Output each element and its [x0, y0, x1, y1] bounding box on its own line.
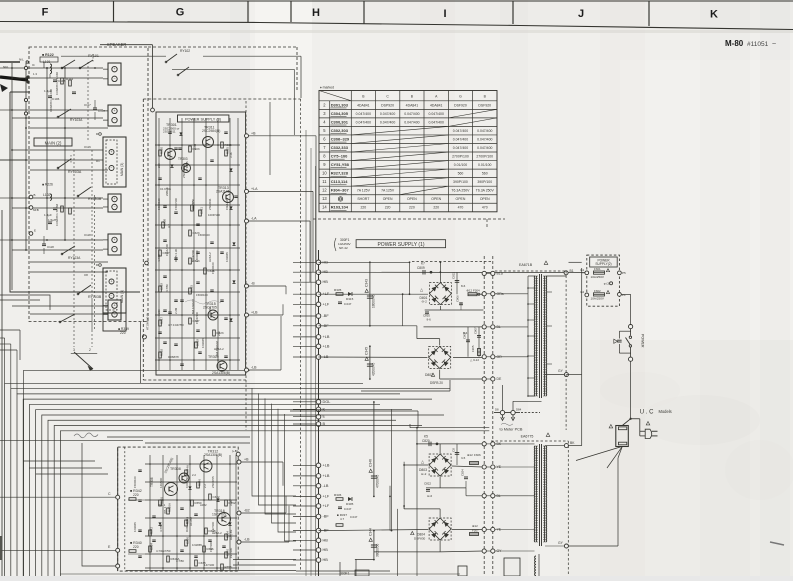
svg-text:HB: HB	[323, 538, 329, 542]
svg-text:C806: C806	[456, 295, 460, 302]
svg-text:1500/100: 1500/100	[211, 262, 215, 274]
svg-text:D315: D315	[346, 297, 354, 301]
svg-text:HB: HB	[323, 558, 329, 562]
svg-text:0.01/100: 0.01/100	[454, 163, 468, 167]
svg-text:-LA: -LA	[251, 217, 257, 221]
svg-text:U . C: U . C	[640, 410, 654, 416]
svg-text:C807: C807	[474, 327, 478, 334]
svg-text:-LB: -LB	[244, 538, 250, 542]
svg-text:1.3: 1.3	[33, 72, 37, 76]
svg-text:220: 220	[217, 331, 221, 336]
svg-text:D8: D8	[495, 408, 499, 412]
svg-text:DSF830: DSF830	[414, 537, 426, 541]
svg-text:R358: R358	[225, 565, 232, 569]
svg-text:GY: GY	[558, 541, 564, 545]
svg-text:2.2: 2.2	[192, 473, 196, 477]
svg-text:470: 470	[458, 206, 464, 210]
svg-text:■ R226: ■ R226	[42, 183, 53, 187]
svg-text:F302: F302	[594, 289, 601, 293]
svg-text:C322: C322	[213, 495, 220, 499]
svg-text:1500/100: 1500/100	[133, 476, 137, 488]
svg-text:MAIN (3): MAIN (3)	[120, 163, 124, 176]
svg-text:11: 11	[322, 179, 327, 184]
svg-text:HB: HB	[323, 280, 329, 284]
svg-text:2700P/100: 2700P/100	[476, 155, 493, 159]
svg-text:SUPPLY(2): SUPPLY(2)	[595, 262, 611, 266]
svg-text:F306: F306	[474, 453, 481, 457]
svg-text:C306~329: C306~329	[331, 136, 350, 141]
svg-text:0.047/400: 0.047/400	[404, 112, 419, 116]
svg-text:0.068/7F1.70.068: 0.068/7F1.70.068	[55, 204, 59, 226]
svg-text:10: 10	[322, 171, 327, 176]
svg-text:C346: C346	[369, 459, 373, 467]
svg-text:C106: C106	[52, 97, 60, 101]
svg-text:-B2: -B2	[244, 509, 250, 513]
svg-text:EA671B: EA671B	[519, 263, 533, 267]
svg-text:0.047/400: 0.047/400	[429, 120, 444, 124]
svg-text:1.3μF: 1.3μF	[44, 213, 52, 217]
svg-text:C8: C8	[452, 448, 456, 452]
svg-text:10A/250V: 10A/250V	[591, 275, 605, 279]
svg-text:B: B	[34, 193, 36, 197]
svg-text:■ R122: ■ R122	[42, 53, 54, 57]
svg-text:CY51,Y58: CY51,Y58	[331, 162, 350, 167]
svg-text:SHORT: SHORT	[357, 197, 370, 201]
svg-text:C118: C118	[84, 233, 91, 237]
svg-text:DSF920: DSF920	[454, 103, 467, 107]
svg-text:T6.3A 250V: T6.3A 250V	[476, 189, 495, 193]
svg-text:Models: Models	[659, 409, 672, 414]
svg-text:⊖-6: ⊖-6	[427, 494, 432, 498]
svg-text:F301: F301	[594, 267, 601, 271]
svg-text:RY102: RY102	[180, 49, 190, 53]
svg-text:(+B): (+B)	[232, 449, 238, 453]
svg-text:R103,104: R103,104	[331, 205, 349, 210]
svg-text:G: G	[459, 95, 462, 99]
svg-text:DSFB 20: DSFB 20	[430, 381, 443, 385]
svg-text:10A/250V: 10A/250V	[591, 297, 605, 301]
svg-text:R327,328: R327,328	[331, 171, 349, 176]
svg-text:DE: DE	[497, 377, 502, 381]
svg-text:0.01/100: 0.01/100	[478, 163, 492, 167]
svg-text:R344A: R344A	[186, 465, 190, 474]
svg-text:C6k1/100: C6k1/100	[165, 244, 169, 256]
svg-text:R326A: R326A	[168, 503, 172, 512]
svg-text:197/100: 197/100	[229, 547, 233, 558]
svg-text:C809: C809	[417, 266, 425, 270]
svg-text:0.047/50: 0.047/50	[191, 199, 195, 210]
svg-text:C118: C118	[47, 245, 54, 249]
svg-text:3PL.1: 3PL.1	[158, 503, 166, 507]
svg-text:D319: D319	[196, 339, 200, 346]
svg-text:2SC2911: 2SC2911	[208, 198, 212, 210]
svg-text:R335: R335	[334, 288, 342, 292]
svg-text:BK: BK	[570, 441, 575, 445]
svg-text:+: +	[113, 238, 115, 242]
svg-text:+LB: +LB	[323, 335, 330, 339]
svg-text:0.068: 0.068	[208, 307, 212, 314]
svg-text:-BF: -BF	[323, 314, 330, 318]
svg-text:+: +	[113, 109, 115, 113]
svg-text:F307: F307	[472, 529, 479, 533]
svg-text:220: 220	[133, 545, 139, 549]
svg-text:C300,301: C300,301	[331, 119, 349, 124]
svg-text:3-5: 3-5	[461, 456, 466, 460]
svg-text:470: 470	[482, 206, 488, 210]
svg-text:+LB: +LB	[323, 463, 330, 467]
svg-text:C117: C117	[84, 103, 91, 107]
svg-text:RY103A: RY103A	[68, 256, 81, 260]
svg-text:D305: D305	[346, 502, 354, 506]
svg-text:GY: GY	[558, 369, 564, 373]
svg-text:4.7 0.047/50: 4.7 0.047/50	[168, 323, 184, 327]
svg-text:C113,114: C113,114	[331, 179, 349, 184]
svg-text:4DA841: 4DA841	[430, 103, 443, 107]
svg-text:150P/100: 150P/100	[174, 198, 178, 210]
svg-text:9-6: 9-6	[427, 318, 432, 322]
svg-text:197/100: 197/100	[211, 521, 215, 532]
svg-text:MA 12A0-M: MA 12A0-M	[215, 341, 219, 356]
svg-text:K7: K7	[421, 262, 425, 266]
svg-text:2: 2	[89, 348, 91, 352]
svg-text:TR308: TR308	[170, 467, 181, 471]
svg-text:0.068/7F1.2 0.068: 0.068/7F1.2 0.068	[55, 72, 59, 95]
svg-text:0.068/7F1.2 0.068: 0.068/7F1.2 0.068	[49, 89, 53, 112]
svg-text:8-6: 8-6	[461, 284, 466, 288]
svg-text:R326 3PL.1: R326 3PL.1	[185, 517, 189, 532]
svg-text:+LB: +LB	[323, 474, 330, 478]
svg-text:RY103A: RY103A	[68, 170, 82, 174]
svg-text:C321: C321	[200, 207, 204, 214]
svg-text:D301,303: D301,303	[331, 102, 349, 107]
svg-text:1N1865: 1N1865	[192, 543, 202, 547]
svg-text:M-80: M-80	[725, 39, 744, 48]
svg-text:0.047/400: 0.047/400	[380, 120, 395, 124]
svg-text:−: −	[113, 118, 115, 122]
svg-text:E2: E2	[581, 290, 585, 294]
svg-text:T6.3A 250V: T6.3A 250V	[451, 189, 470, 193]
svg-text:C319: C319	[160, 283, 164, 290]
svg-text:C345: C345	[365, 347, 369, 355]
svg-text:0.047/400: 0.047/400	[356, 120, 371, 124]
svg-text:-B: -B	[251, 282, 255, 286]
svg-text:TR303: TR303	[178, 157, 188, 161]
svg-text:2.2M: 2.2M	[193, 143, 197, 150]
svg-text:0.047/400: 0.047/400	[429, 112, 444, 116]
svg-text:OPEN: OPEN	[431, 197, 441, 201]
svg-text:POWER SUPPLY (3): POWER SUPPLY (3)	[185, 118, 222, 122]
svg-text:-LB: -LB	[251, 366, 257, 370]
svg-text:42000/45: 42000/45	[371, 362, 375, 376]
svg-text:~: ~	[772, 41, 776, 48]
svg-text:J: J	[578, 8, 584, 20]
svg-text:HB: HB	[323, 548, 329, 552]
svg-text:560: 560	[458, 172, 464, 176]
svg-text:4.7/50: 4.7/50	[159, 524, 163, 532]
svg-text:2SA1306(B): 2SA1306(B)	[212, 371, 230, 375]
svg-text:0.047/400: 0.047/400	[477, 137, 492, 141]
svg-text:C304,305: C304,305	[331, 111, 349, 116]
svg-text:NFL: NFL	[3, 65, 9, 69]
svg-text:2SC2901: 2SC2901	[182, 166, 186, 178]
svg-text:OPEN: OPEN	[407, 197, 417, 201]
svg-text:4.7/50: 4.7/50	[165, 284, 169, 292]
svg-text:K: K	[710, 9, 718, 21]
svg-text:MA 12A0-M: MA 12A0-M	[191, 299, 195, 314]
svg-text:7A 125V: 7A 125V	[381, 189, 395, 193]
svg-text:2.2: 2.2	[203, 484, 207, 488]
svg-text:0.047/400: 0.047/400	[453, 137, 468, 141]
svg-text:R315: R315	[190, 285, 194, 292]
svg-text:197/100: 197/100	[209, 541, 213, 552]
svg-text:4.7: 4.7	[167, 224, 171, 228]
svg-text:7A 125V: 7A 125V	[357, 189, 371, 193]
svg-text:4DA841: 4DA841	[406, 103, 419, 107]
svg-text:C344: C344	[369, 528, 373, 536]
svg-text:14: 14	[322, 205, 327, 210]
svg-text:150P/100: 150P/100	[195, 312, 199, 324]
svg-text:A32(-B3: A32(-B3	[229, 529, 233, 540]
svg-text:IC: IC	[32, 63, 35, 67]
svg-text:C6k1/100: C6k1/100	[225, 198, 229, 210]
svg-text:147/100: 147/100	[204, 563, 215, 567]
svg-text:C336: C336	[186, 537, 190, 544]
svg-text:△ 9-12: △ 9-12	[470, 358, 479, 362]
svg-text:K5: K5	[424, 435, 428, 439]
svg-text:H: H	[312, 7, 320, 19]
svg-text:−: −	[113, 77, 115, 81]
svg-text:560: 560	[482, 172, 488, 176]
svg-text:120/500: 120/500	[159, 477, 163, 488]
svg-text:0.047/400: 0.047/400	[356, 112, 371, 116]
svg-text:220: 220	[433, 206, 439, 210]
svg-text:2.2M: 2.2M	[174, 307, 178, 314]
svg-text:to Meter PCB: to Meter PCB	[500, 428, 523, 432]
svg-text:3: 3	[73, 348, 75, 352]
svg-text:C820: C820	[422, 439, 430, 443]
svg-text:D84: D84	[516, 408, 522, 412]
svg-text:+: +	[113, 67, 115, 71]
svg-text:B1a: B1a	[497, 271, 503, 275]
svg-text:C824: C824	[461, 469, 465, 476]
svg-text:+LB: +LB	[251, 311, 258, 315]
svg-text:⊕12: ⊕12	[467, 453, 473, 457]
svg-text:NFB: NFB	[33, 208, 39, 212]
svg-text:L101: L101	[43, 60, 51, 64]
svg-text:100P/100: 100P/100	[208, 213, 220, 217]
svg-text:OPEN: OPEN	[480, 197, 490, 201]
svg-text:C107: C107	[98, 109, 105, 113]
svg-text:C343: C343	[365, 279, 369, 287]
svg-text:+: +	[113, 197, 115, 201]
svg-text:D1: D1	[96, 159, 100, 163]
svg-text:0.047: 0.047	[350, 515, 358, 519]
svg-text:2700P/100: 2700P/100	[452, 155, 469, 159]
svg-text:+: +	[113, 304, 115, 308]
svg-text:+: +	[111, 280, 113, 284]
svg-text:220: 220	[120, 331, 126, 335]
svg-text:2SC2984(B): 2SC2984(B)	[202, 129, 220, 133]
svg-text:F305: F305	[471, 345, 475, 352]
svg-text:0.047: 0.047	[344, 507, 352, 511]
svg-text:47000/45: 47000/45	[375, 474, 379, 488]
svg-text:♦ marked: ♦ marked	[320, 86, 334, 90]
svg-text:+LF: +LF	[323, 494, 330, 498]
svg-text:DGL: DGL	[323, 400, 331, 404]
svg-text:R317: R317	[160, 317, 164, 324]
svg-text:C302,303: C302,303	[331, 128, 349, 133]
svg-text:+: +	[111, 150, 113, 154]
svg-text:0.047/400: 0.047/400	[380, 112, 395, 116]
svg-text:3PL.1: 3PL.1	[163, 506, 167, 514]
svg-text:OPEN: OPEN	[383, 197, 393, 201]
svg-text:F: F	[42, 7, 49, 19]
svg-text:φ (3): φ (3)	[604, 282, 610, 286]
svg-text:HZ6A-2: HZ6A-2	[208, 252, 212, 262]
svg-text:2MA-X: 2MA-X	[165, 187, 169, 196]
svg-text:RY103B: RY103B	[88, 295, 102, 299]
svg-text:100P/100: 100P/100	[191, 250, 195, 262]
svg-text:0.047/400: 0.047/400	[453, 129, 468, 133]
svg-text:0.047/400: 0.047/400	[477, 146, 492, 150]
svg-text:F304~307: F304~307	[331, 188, 350, 193]
svg-text:DSP920: DSP920	[381, 103, 394, 107]
svg-text:0.047/400: 0.047/400	[453, 146, 468, 150]
svg-text:POWER SUPPLY (1): POWER SUPPLY (1)	[377, 242, 424, 248]
svg-text:R305 3.3K: R305 3.3K	[174, 249, 178, 262]
svg-text:E1: E1	[581, 268, 585, 272]
svg-text:I: I	[443, 8, 446, 20]
svg-text:DSF920: DSF920	[478, 103, 491, 107]
svg-text:+LA: +LA	[251, 187, 258, 191]
svg-text:+LF: +LF	[323, 302, 330, 306]
svg-text:⊖-2: ⊖-2	[422, 300, 428, 304]
svg-text:8-4: 8-4	[463, 331, 468, 335]
svg-text:-LB: -LB	[323, 484, 329, 488]
svg-text:R318: R318	[160, 349, 164, 356]
svg-text:C105: C105	[58, 79, 66, 83]
svg-text:0.047/400: 0.047/400	[404, 120, 419, 124]
svg-text:390P/100: 390P/100	[453, 180, 468, 184]
svg-text:P1: P1	[622, 293, 626, 297]
svg-text:12: 12	[322, 188, 327, 193]
svg-text:1N1865: 1N1865	[133, 522, 137, 532]
svg-text:390P/100: 390P/100	[477, 180, 492, 184]
svg-text:R320: R320	[160, 147, 164, 154]
svg-text:220: 220	[409, 206, 415, 210]
svg-text:−: −	[111, 294, 113, 298]
svg-text:4.7/0A/7/50: 4.7/0A/7/50	[156, 549, 171, 553]
svg-text:A322: A322	[200, 503, 207, 507]
svg-text:CY5~100: CY5~100	[331, 154, 348, 159]
svg-text:C116: C116	[84, 145, 91, 149]
svg-text:+B: +B	[244, 458, 249, 462]
svg-text:4.7: 4.7	[340, 517, 344, 521]
svg-text:⊖-2: ⊖-2	[421, 472, 427, 476]
svg-text:NP-42: NP-42	[339, 246, 348, 250]
svg-text:P5: P5	[622, 271, 626, 275]
svg-text:C8: C8	[84, 273, 88, 277]
svg-text:13: 13	[322, 196, 327, 201]
svg-text:F304: F304	[473, 289, 480, 293]
svg-text:3.3K: 3.3K	[229, 152, 233, 158]
svg-text:38000/56: 38000/56	[375, 543, 379, 557]
svg-text:POWER: POWER	[641, 334, 645, 348]
svg-text:OPEN: OPEN	[456, 197, 466, 201]
svg-text:RY103A: RY103A	[70, 118, 83, 122]
svg-text:L102: L102	[43, 193, 51, 197]
svg-text:+B: +B	[251, 131, 256, 135]
svg-text:3.3K: 3.3K	[229, 500, 233, 506]
svg-text:+LF: +LF	[323, 504, 330, 508]
svg-text:−: −	[113, 205, 115, 209]
svg-text:C811: C811	[452, 272, 456, 279]
svg-text:B1: B1	[570, 269, 574, 273]
svg-text:220: 220	[360, 206, 366, 210]
svg-text:220: 220	[133, 493, 139, 497]
svg-text:⊕12: ⊕12	[466, 289, 472, 293]
svg-text:220: 220	[385, 206, 391, 210]
svg-text:G: G	[176, 7, 185, 19]
svg-text:4DA841: 4DA841	[357, 103, 370, 107]
svg-text:2SA1306(B): 2SA1306(B)	[204, 453, 222, 457]
svg-text:EA6775: EA6775	[521, 435, 534, 439]
svg-text:R336: R336	[334, 493, 342, 497]
svg-text:C822: C822	[424, 482, 431, 486]
svg-text:1N1865: 1N1865	[225, 252, 229, 262]
svg-text:#11051: #11051	[747, 41, 769, 48]
svg-text:N/L: N/L	[19, 58, 24, 62]
svg-text:D802: D802	[425, 373, 433, 377]
svg-text:1500/100: 1500/100	[198, 233, 210, 237]
svg-text:+LB: +LB	[323, 344, 330, 348]
svg-text:−: −	[111, 166, 113, 170]
svg-text:AT10M W(-2): AT10M W(-2)	[146, 313, 150, 330]
svg-text:-BF: -BF	[323, 515, 330, 519]
svg-text:0.047/400: 0.047/400	[477, 129, 492, 133]
svg-text:C: C	[108, 492, 111, 496]
svg-text:300F1: 300F1	[340, 572, 350, 576]
svg-text:E: E	[34, 229, 36, 233]
svg-text:18000/46: 18000/46	[371, 294, 375, 308]
svg-text:0.047: 0.047	[344, 302, 352, 306]
svg-text:C332,333: C332,333	[331, 145, 349, 150]
svg-text:⊕12: ⊕12	[472, 524, 478, 528]
svg-text:−: −	[113, 247, 115, 251]
svg-text:1500/100: 1500/100	[196, 293, 208, 297]
svg-text:1N1865: 1N1865	[201, 338, 205, 348]
